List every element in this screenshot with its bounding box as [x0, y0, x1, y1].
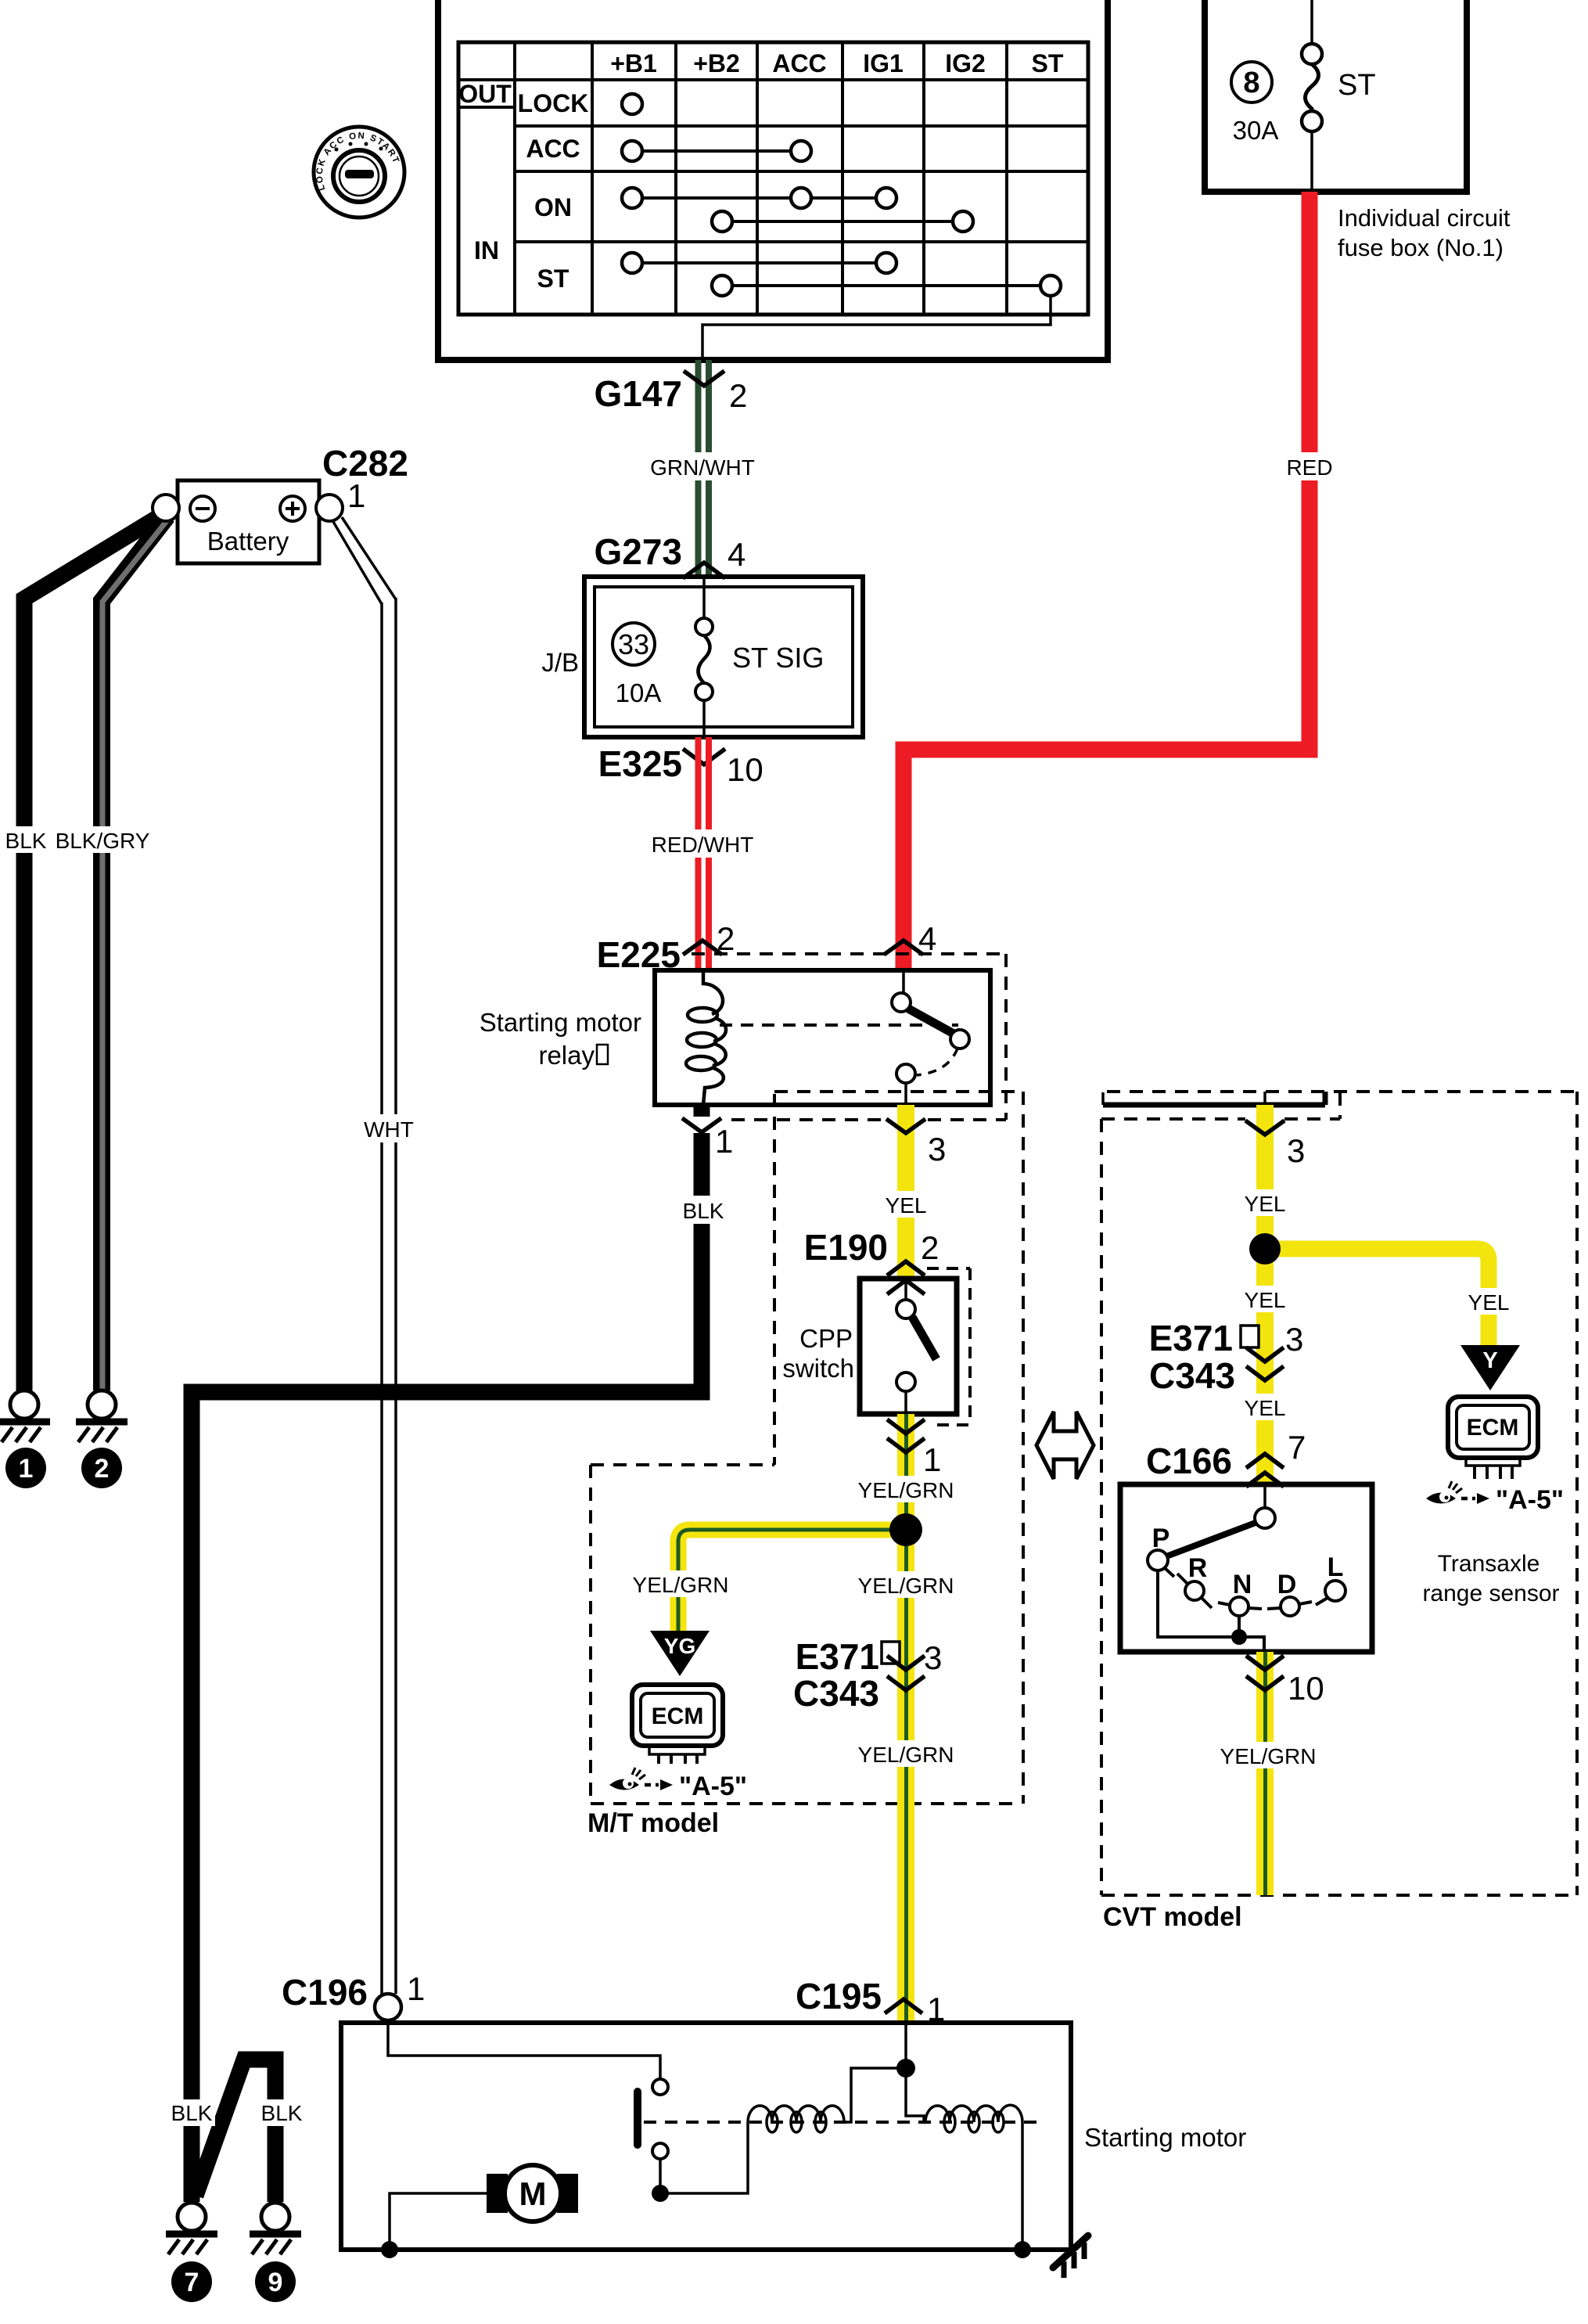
svg-text:YEL/GRN: YEL/GRN	[633, 1573, 729, 1597]
fuse number 8 circle	[1231, 62, 1272, 103]
svg-text:10A: 10A	[616, 678, 662, 707]
svg-text:BLK: BLK	[683, 1199, 724, 1223]
svg-text:CPP: CPP	[799, 1324, 853, 1353]
CPP switch contacts	[896, 1279, 936, 1414]
connector E190 pin 2	[804, 1227, 940, 1294]
wire YEL/GRN junction to E371	[897, 1530, 914, 1804]
magnetic switch lower contact	[652, 2143, 668, 2159]
connector E225 pins 2 and 4	[597, 920, 937, 975]
svg-text:8: 8	[1243, 67, 1259, 99]
contact P	[1148, 1550, 1168, 1570]
battery plus terminal	[280, 496, 305, 521]
connector E371 C343 pin 3 M/T	[793, 1636, 942, 1714]
svg-text:1: 1	[347, 477, 365, 514]
wire BLK battery to ground 1	[24, 513, 166, 1390]
svg-text:9: 9	[268, 2268, 283, 2297]
wire YEL branch to Y arrow	[1265, 1249, 1489, 1347]
ignition key symbol	[314, 127, 404, 218]
svg-text:ACC: ACC	[772, 49, 826, 77]
svg-text:Starting motor: Starting motor	[480, 1008, 641, 1037]
svg-text:switch: switch	[782, 1354, 854, 1383]
svg-text:G273: G273	[594, 531, 682, 572]
wire RED from fuse box to relay pin 4	[904, 192, 1310, 970]
wire BLK/GRY battery to ground 2	[102, 516, 167, 1390]
wire GRN/WHT from ignition switch to J/B	[699, 360, 710, 577]
svg-text:Transaxle: Transaxle	[1438, 1551, 1540, 1577]
wire WHT battery to C196	[332, 517, 396, 1994]
connector chevrons CPP pin 1	[887, 1419, 925, 1434]
svg-text:N: N	[1233, 1570, 1252, 1599]
svg-text:"A-5": "A-5"	[679, 1772, 747, 1801]
label YEL below E371	[1241, 1394, 1288, 1420]
wire junction to hold-in coil	[906, 2068, 924, 2122]
svg-text:YEL: YEL	[1245, 1192, 1286, 1216]
svg-text:2: 2	[729, 377, 747, 414]
svg-text:10: 10	[1288, 1670, 1324, 1707]
svg-text:YEL: YEL	[886, 1193, 927, 1218]
svg-text:3: 3	[1285, 1321, 1303, 1358]
svg-text:WHT: WHT	[364, 1117, 414, 1142]
svg-text:C196: C196	[282, 1972, 368, 2013]
svg-text:3: 3	[928, 1131, 946, 1167]
label YEL below junction	[1241, 1286, 1288, 1312]
wire from ST contact to box exit	[702, 296, 1051, 360]
svg-text:relay: relay	[538, 1041, 595, 1070]
svg-text:range sensor: range sensor	[1422, 1581, 1559, 1606]
ground symbol 2	[76, 1390, 128, 1488]
svg-text:1: 1	[715, 1123, 733, 1160]
ground symbol 9	[250, 2203, 301, 2302]
ECM module M/T	[632, 1685, 723, 1764]
contact L	[1325, 1581, 1345, 1601]
junction block J/B box	[584, 577, 863, 737]
svg-text:YEL: YEL	[1245, 1288, 1286, 1312]
svg-text:ON: ON	[534, 193, 572, 221]
label YEL right branch	[1465, 1288, 1512, 1315]
svg-text:BLK/GRY: BLK/GRY	[56, 829, 150, 853]
svg-text:4: 4	[728, 536, 745, 573]
contact N	[1230, 1597, 1248, 1616]
wire YEL/GRN from M/T box to starting motor	[897, 1804, 914, 2024]
connector chevron on YEL pin 3	[886, 1119, 925, 1133]
svg-text:2: 2	[921, 1229, 939, 1266]
svg-text:7: 7	[185, 2268, 199, 2297]
junction dot bottom left	[381, 2241, 398, 2258]
svg-text:E371: E371	[796, 1636, 879, 1677]
junction dot CVT	[1249, 1233, 1281, 1265]
svg-text:P: P	[1152, 1524, 1170, 1553]
dashed box around CPP switch	[927, 1268, 970, 1425]
svg-text:M: M	[519, 2175, 547, 2212]
svg-text:1: 1	[923, 1441, 941, 1478]
ground symbol 7	[166, 2203, 217, 2302]
svg-text:YEL: YEL	[1468, 1290, 1510, 1315]
svg-text:E325: E325	[598, 743, 682, 784]
svg-text:BLK: BLK	[261, 2101, 303, 2125]
linkage dashed line through coils	[644, 2121, 1040, 2124]
label BLK ground 7	[168, 2099, 215, 2126]
motor M	[487, 2165, 578, 2221]
fuse 8 30A ST symbol	[1302, 0, 1322, 192]
svg-text:CVT model: CVT model	[1103, 1902, 1242, 1932]
svg-text:YEL: YEL	[1245, 1396, 1286, 1420]
table header labels	[458, 49, 1064, 293]
svg-text:30A: 30A	[1233, 116, 1279, 145]
svg-text:Individual circuit: Individual circuit	[1338, 204, 1511, 232]
ground symbol 1	[0, 1390, 50, 1488]
wire pull-in coil to junction	[844, 2068, 897, 2122]
svg-text:1: 1	[19, 1454, 34, 1484]
junction dot bottom right	[1014, 2241, 1031, 2258]
ignition switch box	[438, 0, 1108, 360]
label YEL	[882, 1191, 929, 1218]
svg-text:33: 33	[618, 628, 649, 660]
svg-text:Starting motor: Starting motor	[1084, 2123, 1246, 2152]
Y arrow to ECM	[1460, 1345, 1520, 1390]
svg-text:4: 4	[918, 920, 936, 957]
contact row ACC: +B1 to ACC	[642, 149, 791, 153]
svg-text:G147: G147	[594, 373, 682, 414]
dashed box M/T model	[591, 1092, 1023, 1804]
CPP switch box E190	[860, 1279, 957, 1414]
contact row ST: +B1 to IG1	[642, 261, 876, 264]
svg-text:Y: Y	[1482, 1348, 1497, 1373]
connector C166 pin 7	[1146, 1429, 1306, 1487]
svg-text:10: 10	[727, 751, 763, 788]
label YEL/GRN below junction	[856, 1571, 956, 1598]
starting motor relay box E225	[655, 970, 990, 1105]
connector G147 pin 2	[594, 371, 747, 414]
contact D	[1281, 1597, 1299, 1616]
svg-text:3: 3	[1287, 1132, 1305, 1169]
table contact circles and links	[622, 94, 1061, 296]
svg-text:E371: E371	[1149, 1318, 1233, 1358]
label WHT	[361, 1114, 416, 1142]
svg-text:IN: IN	[474, 236, 499, 264]
svg-text:YEL/GRN: YEL/GRN	[1220, 1744, 1317, 1768]
contact row ST: +B2 to ST	[732, 284, 1040, 287]
chevrons C166 pin 7 over box edge	[1246, 1454, 1284, 1468]
svg-text:BLK: BLK	[171, 2101, 213, 2125]
contact LOCK +B1	[622, 94, 642, 114]
wire YEL/GRN branch to YG arrow	[678, 1530, 906, 1632]
label YEL/GRN left branch	[631, 1570, 731, 1597]
wire motor to box bottom left	[390, 2193, 487, 2250]
wire YEL/GRN from sensor pin 10	[1256, 1652, 1274, 1895]
contact R	[1185, 1581, 1204, 1600]
individual circuit fuse box No.1	[1205, 0, 1467, 192]
svg-text:C195: C195	[796, 1976, 882, 2016]
svg-text:2: 2	[717, 920, 735, 957]
svg-text:ST: ST	[537, 264, 569, 293]
wire YEL CVT from relay pin 3	[1256, 1105, 1274, 1484]
magnetic switch upper contact	[652, 2079, 668, 2095]
label RED/WHT	[649, 829, 756, 858]
svg-text:ST: ST	[1338, 69, 1376, 102]
wire lower contact to motor node	[659, 2159, 662, 2186]
svg-text:ST: ST	[1032, 49, 1064, 77]
label YEL/GRN above C195	[856, 1740, 956, 1767]
battery right terminal circle C282	[316, 495, 343, 521]
svg-text:+B1: +B1	[610, 49, 657, 77]
label YEL/GRN CVT	[1218, 1742, 1318, 1768]
label GRN/WHT	[652, 452, 754, 480]
connector C195 pin 1	[796, 1976, 945, 2027]
junction dot M/T	[889, 1513, 922, 1546]
svg-text:C166: C166	[1146, 1441, 1232, 1481]
svg-text:"A-5": "A-5"	[1496, 1485, 1564, 1515]
fuse 33 ST SIG symbol	[695, 577, 713, 737]
relay linkage dashed line	[720, 1023, 958, 1027]
svg-text:YEL/GRN: YEL/GRN	[858, 1478, 954, 1502]
svg-text:IG1: IG1	[863, 49, 904, 77]
label BLK	[4, 826, 49, 853]
svg-text:D: D	[1277, 1570, 1297, 1599]
label YEL/GRN	[856, 1476, 956, 1502]
battery minus terminal	[190, 496, 215, 521]
wire hold-in coil to box bottom	[1021, 2122, 1024, 2250]
transaxle range sensor box C166	[1120, 1484, 1372, 1652]
fuse 33 circle	[613, 623, 655, 665]
svg-text:RED/WHT: RED/WHT	[652, 833, 754, 857]
chevrons E190 pin 2 over box edge	[887, 1261, 925, 1275]
svg-text:L: L	[1328, 1552, 1344, 1582]
svg-text:E190: E190	[804, 1227, 888, 1268]
wire from C196 to magnetic switch	[388, 2020, 660, 2078]
svg-text:2: 2	[95, 1454, 110, 1484]
battery box	[178, 480, 319, 563]
label BLK/GRY	[56, 826, 150, 853]
svg-text:C343: C343	[1149, 1355, 1235, 1396]
YG arrow to ECM	[650, 1631, 710, 1676]
svg-text:1: 1	[407, 1970, 425, 2007]
junction dot at motor	[652, 2185, 669, 2202]
wire YEL/GRN from CPP pin 1 to junction	[897, 1414, 914, 1530]
contact row ON: +B2 to IG2	[732, 220, 953, 223]
svg-text:OUT: OUT	[458, 80, 512, 108]
battery left terminal circle	[153, 495, 179, 521]
svg-text:GRN/WHT: GRN/WHT	[650, 455, 755, 480]
pull-in coil	[748, 2106, 844, 2132]
svg-text:RED: RED	[1286, 455, 1332, 480]
label BLK	[681, 1196, 726, 1224]
ECM module CVT	[1448, 1397, 1538, 1479]
double arrow between M/T and CVT	[1037, 1412, 1094, 1479]
connector E325 pin 10	[598, 743, 763, 788]
wire BLK branch to ground 9	[196, 2060, 275, 2202]
connector chevron on BLK pin 1	[682, 1117, 721, 1133]
wire BLK from relay pin 1 to ground 7	[192, 1105, 702, 2202]
chevrons over YEL/GRN pin 10 redrawn	[1246, 1656, 1284, 1690]
svg-text:YEL/GRN: YEL/GRN	[858, 1743, 954, 1767]
label RED	[1284, 452, 1335, 480]
svg-text:BLK: BLK	[5, 829, 47, 853]
relay output bus CVT side	[1103, 1092, 1325, 1105]
eye refer symbol CVT	[1426, 1481, 1489, 1504]
wire YEL/GRN inside box to junction	[904, 2023, 907, 2068]
junction dot C195 branch	[896, 2059, 915, 2078]
connector E371 C343 pin 3 CVT	[1149, 1318, 1304, 1396]
relay contact pins	[892, 970, 969, 1105]
svg-text:LOCK: LOCK	[518, 89, 589, 117]
label YEL	[1241, 1189, 1288, 1216]
hold-in coil	[925, 2105, 1022, 2132]
svg-text:IG2: IG2	[945, 49, 986, 77]
svg-text:Battery: Battery	[207, 527, 289, 556]
sensor common dot	[1231, 1629, 1247, 1645]
svg-text:3: 3	[924, 1639, 942, 1676]
magnetic switch plunger	[634, 2088, 641, 2149]
connector C196 pin 1	[282, 1970, 425, 2020]
svg-text:M/T model: M/T model	[587, 1808, 719, 1838]
svg-text:ECM: ECM	[1467, 1415, 1519, 1441]
svg-text:fuse box (No.1): fuse box (No.1)	[1338, 234, 1504, 261]
sensor internal contacts	[1148, 1484, 1345, 1652]
wire node to pull-in coil	[660, 2122, 748, 2193]
wire YEL from relay pin 3	[897, 1105, 914, 1279]
connector chevron CVT pin 3	[1245, 1121, 1284, 1135]
svg-text:ECM: ECM	[652, 1703, 704, 1729]
label BLK ground 9	[258, 2099, 305, 2126]
svg-text:7: 7	[1288, 1429, 1306, 1466]
svg-text:C343: C343	[793, 1673, 879, 1714]
connector C166 pin 10 below sensor	[1246, 1656, 1324, 1707]
eye refer symbol M/T	[609, 1768, 673, 1790]
wire P to common dot	[1158, 1570, 1231, 1637]
ground at starting motor	[1053, 2236, 1088, 2278]
svg-text:ST SIG: ST SIG	[732, 642, 824, 674]
svg-text:YG: YG	[664, 1634, 695, 1658]
ignition switch contact table	[458, 42, 1088, 315]
svg-text:+B2: +B2	[693, 49, 740, 77]
dashed enclosure around starting motor relay	[692, 954, 1023, 1465]
relay coil	[686, 970, 726, 1105]
svg-text:YEL/GRN: YEL/GRN	[858, 1574, 954, 1598]
dashed box CVT model	[1101, 1092, 1577, 1895]
svg-text:R: R	[1188, 1553, 1208, 1583]
wire RED/WHT from J/B to relay pin 2	[699, 737, 710, 970]
starting motor box	[341, 2023, 1071, 2250]
contact row ON: +B1 ACC IG1	[642, 196, 876, 200]
connector G273 pin 4	[594, 531, 745, 578]
svg-text:ACC: ACC	[526, 135, 580, 163]
svg-text:J/B: J/B	[541, 648, 579, 677]
